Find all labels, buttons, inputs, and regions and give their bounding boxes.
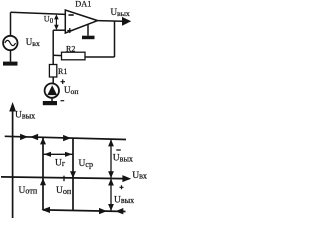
svg-text:Uср: Uср — [79, 159, 94, 169]
svg-text:Uвых: Uвых — [113, 154, 133, 164]
svg-text:Uг: Uг — [55, 158, 66, 168]
svg-text:Uотп: Uотп — [19, 186, 38, 196]
svg-text:DA1: DA1 — [75, 0, 91, 8]
svg-text:Uвх: Uвх — [132, 171, 147, 181]
svg-text:Uвх: Uвх — [26, 37, 40, 48]
svg-text:Uвых: Uвых — [111, 7, 130, 18]
svg-text:Uоп: Uоп — [56, 186, 72, 196]
svg-text:R1: R1 — [58, 67, 67, 76]
svg-text:Uвых: Uвых — [15, 111, 35, 121]
svg-text:Uоп: Uоп — [64, 85, 79, 96]
svg-text:R2: R2 — [66, 44, 75, 53]
svg-text:Uвых: Uвых — [114, 195, 134, 205]
